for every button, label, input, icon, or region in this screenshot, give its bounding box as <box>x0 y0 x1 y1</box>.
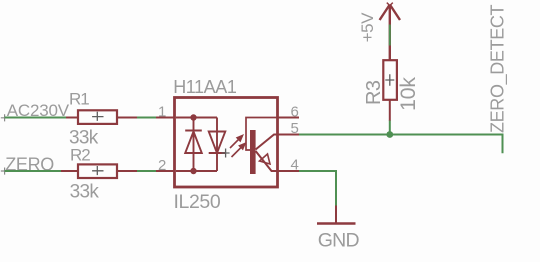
optocoupler U1 box <box>175 98 278 188</box>
light arrow 1 <box>230 136 243 149</box>
U1 interior input rails <box>176 118 217 172</box>
svg-text:R3: R3 <box>363 80 385 105</box>
svg-text:5: 5 <box>291 120 299 137</box>
supply +5V symbol <box>380 3 400 60</box>
U1 pins right (pin 6, pin 5, pin 4) <box>278 118 300 172</box>
resistor R3 <box>383 60 397 121</box>
svg-text:6: 6 <box>291 103 299 120</box>
svg-text:10k: 10k <box>396 77 420 111</box>
junction dots on LED rails <box>190 114 196 120</box>
wire R2 to U1 pin2 <box>137 170 157 172</box>
wire pin5 to ZERO_DETECT <box>299 135 503 154</box>
phototransistor base bar <box>250 130 256 174</box>
svg-text:R2: R2 <box>70 145 90 164</box>
svg-text:33k: 33k <box>70 181 100 202</box>
resistor R1 <box>57 110 137 124</box>
wire R1 to U1 pin1 <box>137 117 157 119</box>
LED D1 (pointing up) <box>185 131 202 154</box>
phototransistor emitter <box>256 151 278 171</box>
junction dot node <box>386 131 393 138</box>
svg-text:4: 4 <box>291 157 299 174</box>
node AC230V origin cross <box>1 114 9 121</box>
light arrow 2 <box>232 144 246 158</box>
svg-text:R1: R1 <box>69 90 89 109</box>
wire +5V to R3 <box>389 25 391 46</box>
wire pin4 to GND <box>299 171 336 206</box>
svg-text:+5V: +5V <box>358 12 377 43</box>
svg-text:1: 1 <box>158 103 166 120</box>
svg-text:2: 2 <box>158 157 166 174</box>
svg-text:IL250: IL250 <box>174 191 221 213</box>
svg-text:GND: GND <box>318 230 360 252</box>
resistor R2 <box>57 164 137 178</box>
phototransistor collector <box>256 135 278 150</box>
LED D2 (pointing down) <box>209 132 226 154</box>
ground symbol <box>317 206 356 224</box>
wire R3 to node <box>389 121 391 135</box>
op-amp U1 pins left (pin 1, pin 2) <box>156 118 175 172</box>
phototransistor base lead <box>246 118 278 151</box>
svg-text:H11AA1: H11AA1 <box>173 77 237 97</box>
U1 origin cross <box>222 149 230 158</box>
emitter arrowhead <box>260 154 271 164</box>
wire AC230V net <box>5 117 66 119</box>
wire ZERO net <box>5 170 61 172</box>
svg-text:ZERO_DETECT: ZERO_DETECT <box>488 4 509 133</box>
node ZERO origin cross <box>1 168 9 175</box>
